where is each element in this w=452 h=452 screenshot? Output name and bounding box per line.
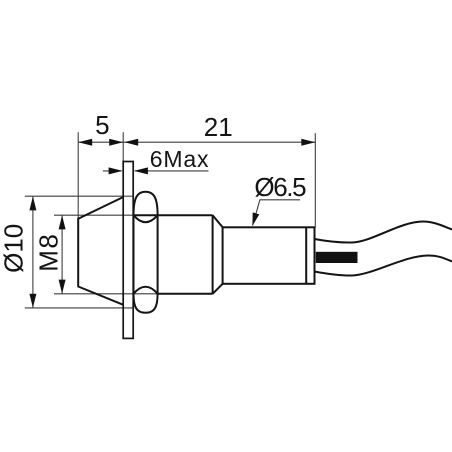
svg-text:21: 21 [204,112,233,142]
svg-text:M8: M8 [34,233,64,272]
svg-text:Ø10: Ø10 [0,224,28,273]
svg-text:6Max: 6Max [150,146,209,172]
svg-text:Ø6.5: Ø6.5 [254,172,306,202]
svg-text:5: 5 [95,110,109,140]
